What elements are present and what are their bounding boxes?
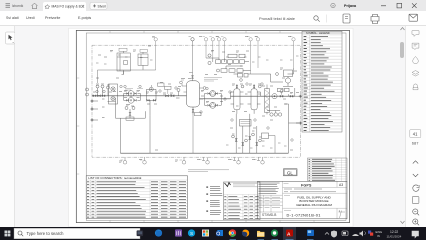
boundary flange F3 bbox=[91, 119, 99, 122]
relief bypass loop bbox=[108, 98, 146, 120]
control cabinet box bbox=[240, 120, 252, 127]
valve V3 bbox=[102, 95, 105, 97]
label box flowline bbox=[165, 86, 172, 94]
drain valve V8 bbox=[242, 139, 248, 145]
instrument TI1 bbox=[177, 89, 180, 96]
valve V6 right bbox=[290, 95, 300, 97]
drain valve V9 bbox=[249, 133, 255, 139]
node T4 top connector bbox=[216, 37, 221, 58]
svg-text:STXMD-B: STXMD-B bbox=[262, 213, 276, 217]
drain valve V10 bbox=[256, 139, 262, 145]
parts table bbox=[224, 182, 261, 220]
boundary flange F4 bbox=[299, 95, 302, 98]
svg-text:GL: GL bbox=[287, 171, 293, 176]
main line to filters bbox=[231, 95, 296, 97]
small unit box bbox=[262, 133, 276, 153]
svg-text:11/01/2024: 11/01/2024 bbox=[387, 234, 402, 238]
valve V1 bbox=[93, 95, 96, 97]
PDF page bbox=[69, 28, 354, 227]
revision table bbox=[308, 158, 348, 181]
drawing inner frame bbox=[86, 33, 346, 220]
pump P4 booster bbox=[208, 102, 218, 108]
measuring points caption bbox=[188, 170, 229, 172]
heater H1 bbox=[264, 85, 269, 115]
svg-text:GENERAL P&I DIAGRAM: GENERAL P&I DIAGRAM bbox=[296, 203, 332, 207]
strainer S1 bbox=[111, 87, 115, 91]
legend table bbox=[302, 31, 342, 132]
node B6 bottom connector bbox=[255, 157, 265, 164]
node B1 bottom connector bbox=[121, 157, 127, 164]
svg-text:LIST OF CONNECTORS : tecnavodi: LIST OF CONNECTORS : tecnavodilnik bbox=[88, 176, 142, 180]
labels pumps bbox=[125, 89, 143, 91]
svg-text:D-1-072N01B-01: D-1-072N01B-01 bbox=[287, 212, 321, 217]
valve V4 bbox=[165, 95, 168, 97]
notes bbox=[206, 187, 222, 215]
svg-text:12:22: 12:22 bbox=[390, 230, 398, 234]
node T6 top connector bbox=[247, 37, 252, 74]
tank B2 bbox=[138, 49, 148, 68]
node balloons left bbox=[86, 88, 89, 96]
node B5 bottom connector bbox=[231, 157, 241, 164]
flow meter bypass bbox=[147, 83, 165, 101]
node B3 bottom connector bbox=[180, 157, 186, 164]
pump P2 supply bbox=[126, 97, 136, 103]
svg-text:A: A bbox=[287, 231, 291, 237]
svg-text:A3: A3 bbox=[339, 183, 343, 187]
connectors list table bbox=[86, 176, 187, 219]
filter FL2 bbox=[248, 85, 262, 114]
module boundary dash-dot bbox=[92, 45, 300, 157]
title block bbox=[258, 181, 348, 219]
vertical return line bbox=[285, 104, 289, 153]
svg-text:687: 687 bbox=[412, 141, 419, 146]
node T3 top connector bbox=[209, 37, 214, 58]
boundary flange F5 bbox=[289, 122, 303, 125]
strainer S2 bbox=[111, 96, 115, 100]
valve V5 bbox=[171, 95, 174, 97]
tank drain valve bbox=[192, 107, 201, 153]
node T2 top connector bbox=[203, 37, 208, 58]
instrument PI1 PI2 PI3 bbox=[96, 85, 110, 96]
pump P1 supply bbox=[126, 91, 136, 97]
instrument boxes heater bbox=[278, 88, 295, 96]
tank B1 bbox=[117, 48, 130, 74]
node T7 top connector bbox=[255, 37, 260, 68]
heater circulation pump bbox=[270, 94, 280, 99]
node T8 top connector bbox=[290, 37, 295, 68]
boundary flange F2 bbox=[91, 108, 99, 111]
svg-text:Type here to search: Type here to search bbox=[27, 231, 65, 236]
GL class mark bbox=[284, 169, 298, 176]
instrument cluster viscosity control bbox=[206, 54, 249, 69]
svg-text:IN: IN bbox=[377, 234, 380, 238]
tank top valve bbox=[189, 37, 195, 81]
booster suction line bbox=[200, 98, 231, 100]
svg-text:FGPS: FGPS bbox=[301, 183, 312, 187]
branch to pumps bbox=[124, 94, 141, 101]
pipe header top-left bbox=[98, 68, 156, 83]
drain valve V7 bbox=[232, 135, 238, 141]
node B4 bottom connector bbox=[200, 157, 210, 164]
labels booster bbox=[204, 78, 222, 82]
valve V2 bbox=[98, 95, 101, 97]
drain risers bbox=[236, 114, 257, 153]
instrument dots scatter bbox=[96, 83, 293, 141]
instrument subcluster bbox=[234, 74, 251, 82]
drawing outer frame bbox=[76, 30, 349, 222]
main supply line bbox=[92, 95, 187, 97]
node B2 bottom connector bbox=[140, 157, 146, 164]
svg-text:SYMBOL - LEGEND: SYMBOL - LEGEND bbox=[306, 31, 330, 35]
pump P3 booster bbox=[208, 91, 218, 97]
tank side fittings bbox=[180, 81, 206, 99]
node T5 top connector bbox=[221, 37, 226, 58]
frame reference ticks bbox=[76, 30, 314, 222]
drain header bbox=[120, 152, 288, 154]
drain drop left bbox=[120, 100, 150, 153]
svg-text:S: S bbox=[190, 231, 193, 237]
control valve TV1 bbox=[280, 90, 283, 98]
node T1 top connector bbox=[152, 37, 157, 70]
boundary flange F1 bbox=[91, 100, 99, 103]
taskbar icons bbox=[137, 230, 144, 236]
strainer duplex housing bbox=[106, 84, 121, 104]
pump unit right bbox=[251, 68, 294, 87]
svg-text:41: 41 bbox=[413, 132, 418, 137]
mixing tank MT1 bbox=[187, 81, 200, 107]
instrument boxes row2 bbox=[217, 69, 251, 72]
temperature balloons bbox=[267, 111, 282, 117]
filter FL1 bbox=[231, 85, 244, 114]
branch booster bbox=[205, 94, 222, 106]
